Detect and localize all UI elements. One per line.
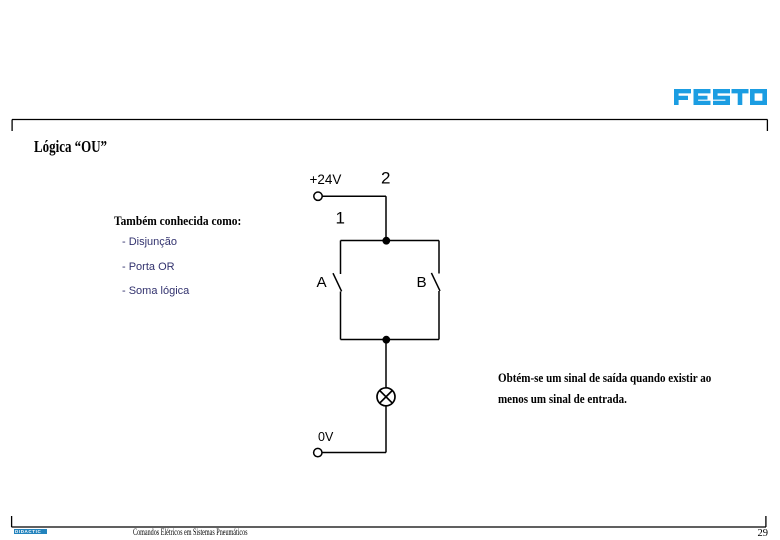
- wire left branch upper: [340, 241, 342, 275]
- title: Lógica "OU": [34, 137, 127, 157]
- label 2: [381, 168, 390, 187]
- frame corner stub top-left: [11, 120, 13, 132]
- wire top rail: [341, 240, 440, 242]
- frame corner stub bottom-left: [11, 516, 13, 527]
- bullet: Porta OR: [122, 261, 175, 273]
- junction node top: [382, 237, 390, 245]
- svg-text:A: A: [317, 274, 328, 291]
- bullet: Soma lógica: [122, 285, 189, 297]
- lamp H1: [377, 388, 395, 406]
- wire right branch lower: [438, 291, 440, 340]
- wire from +24V terminal to feed corner: [322, 195, 386, 197]
- bullet: Disjunção: [122, 236, 177, 248]
- wire feed vertical to top node: [385, 196, 387, 240]
- wire bottom horizontal to 0V: [322, 452, 386, 454]
- label A: [317, 274, 328, 291]
- label B: [417, 274, 427, 291]
- FESTO logo: [674, 89, 767, 105]
- frame corner stub top-right: [766, 120, 768, 132]
- svg-text:2: 2: [381, 168, 390, 187]
- label +24V: [310, 172, 342, 187]
- switch A blade: [333, 273, 342, 291]
- label 1: [336, 208, 345, 227]
- wire right branch upper: [438, 241, 440, 274]
- frame top line: [12, 119, 768, 121]
- switch B blade: [431, 273, 440, 291]
- footer left: DIDACTIC logo: [14, 529, 48, 534]
- svg-text:1: 1: [336, 208, 345, 227]
- frame corner stub bottom-right: [765, 516, 767, 527]
- terminal +24V: [314, 192, 322, 200]
- paragraph right: [498, 367, 750, 410]
- svg-text:0V: 0V: [318, 430, 334, 444]
- frame bottom line: [12, 526, 767, 528]
- wire left branch lower: [340, 292, 342, 340]
- wire bottom rail: [341, 339, 440, 341]
- footer center: course name: [133, 527, 301, 537]
- svg-text:B: B: [417, 274, 427, 291]
- wire bottom node to lamp: [385, 340, 387, 388]
- junction node bottom: [382, 336, 390, 344]
- terminal 0V: [314, 448, 322, 456]
- wire lamp to bottom corner: [385, 406, 387, 453]
- svg-text:+24V: +24V: [310, 172, 342, 187]
- label 0V: [318, 430, 334, 444]
- subtitle: Também conhecida como: [114, 213, 259, 229]
- footer right: page number 29: [758, 528, 769, 539]
